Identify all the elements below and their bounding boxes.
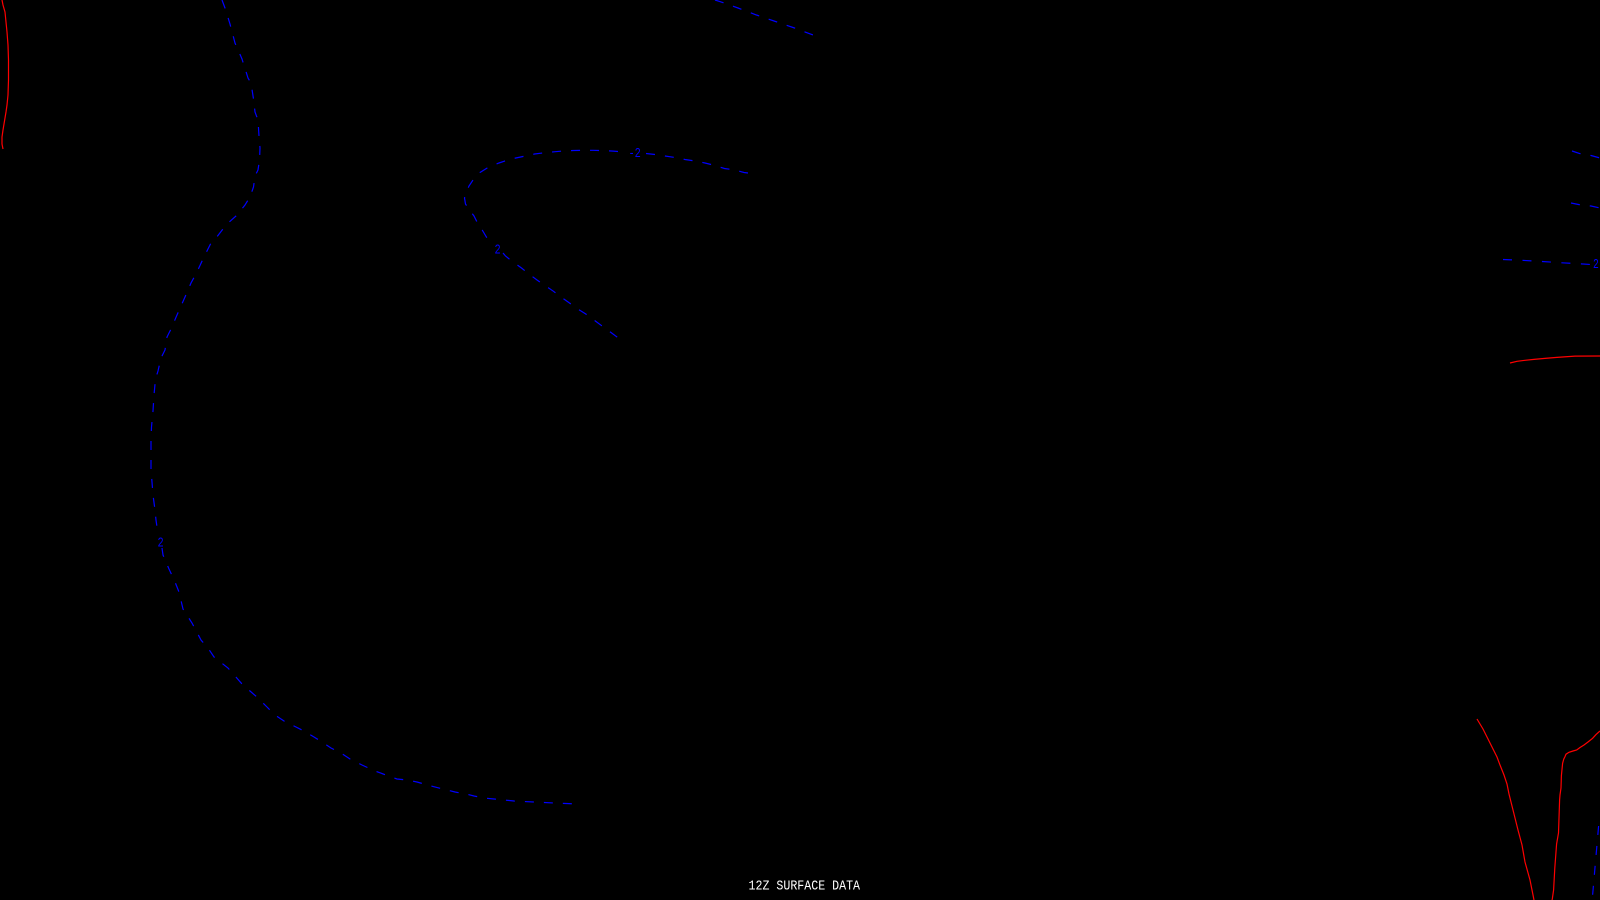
svg-text:2: 2	[1593, 258, 1599, 273]
svg-text:2: 2	[495, 243, 501, 258]
svg-text:-2: -2	[629, 147, 641, 162]
svg-text:12Z SURFACE DATA: 12Z SURFACE DATA	[749, 879, 861, 895]
svg-text:2: 2	[158, 537, 164, 552]
